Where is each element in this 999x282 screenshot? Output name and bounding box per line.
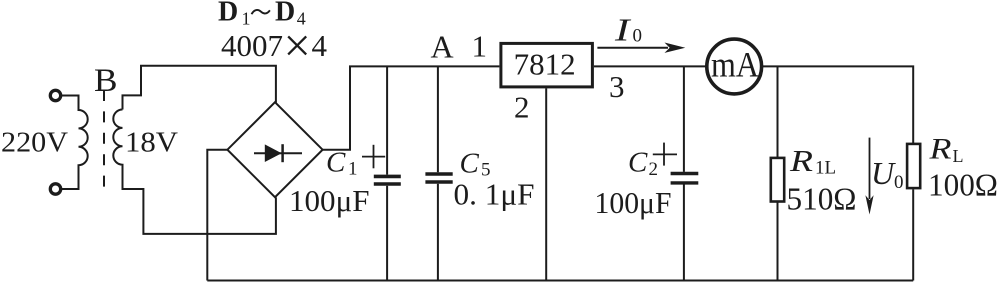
svg-text:4007: 4007 bbox=[221, 28, 283, 63]
svg-text:18V: 18V bbox=[125, 127, 178, 159]
svg-text:D: D bbox=[275, 0, 295, 27]
svg-text:100μF: 100μF bbox=[289, 183, 370, 218]
svg-text:C: C bbox=[326, 147, 346, 179]
svg-text:220V: 220V bbox=[1, 127, 68, 159]
svg-text:B: B bbox=[94, 63, 118, 99]
svg-text:1L: 1L bbox=[815, 158, 836, 179]
svg-text:0: 0 bbox=[633, 25, 643, 46]
svg-text:2: 2 bbox=[514, 89, 530, 124]
svg-text:100μF: 100μF bbox=[595, 185, 672, 220]
svg-text:R: R bbox=[789, 143, 813, 178]
svg-text:7812: 7812 bbox=[514, 47, 576, 82]
svg-text:2: 2 bbox=[649, 159, 659, 180]
svg-text:C: C bbox=[460, 148, 480, 180]
svg-text:3: 3 bbox=[609, 69, 625, 104]
svg-text:4: 4 bbox=[297, 9, 306, 29]
svg-text:1: 1 bbox=[472, 29, 488, 64]
svg-text:L: L bbox=[953, 146, 964, 166]
svg-text:1: 1 bbox=[242, 9, 251, 29]
svg-text:R: R bbox=[928, 133, 951, 166]
svg-text:mA: mA bbox=[711, 45, 759, 85]
svg-text:0. 1μF: 0. 1μF bbox=[454, 176, 535, 211]
svg-text:I: I bbox=[614, 12, 632, 48]
svg-text:A: A bbox=[431, 28, 454, 64]
svg-text:4: 4 bbox=[312, 28, 328, 63]
svg-text:D: D bbox=[218, 0, 238, 27]
svg-text:U: U bbox=[871, 155, 896, 191]
svg-text:100Ω: 100Ω bbox=[928, 167, 998, 203]
svg-text:C: C bbox=[628, 147, 648, 179]
svg-text:510Ω: 510Ω bbox=[787, 181, 857, 217]
svg-text:1: 1 bbox=[348, 159, 358, 180]
svg-text:0: 0 bbox=[894, 172, 904, 193]
